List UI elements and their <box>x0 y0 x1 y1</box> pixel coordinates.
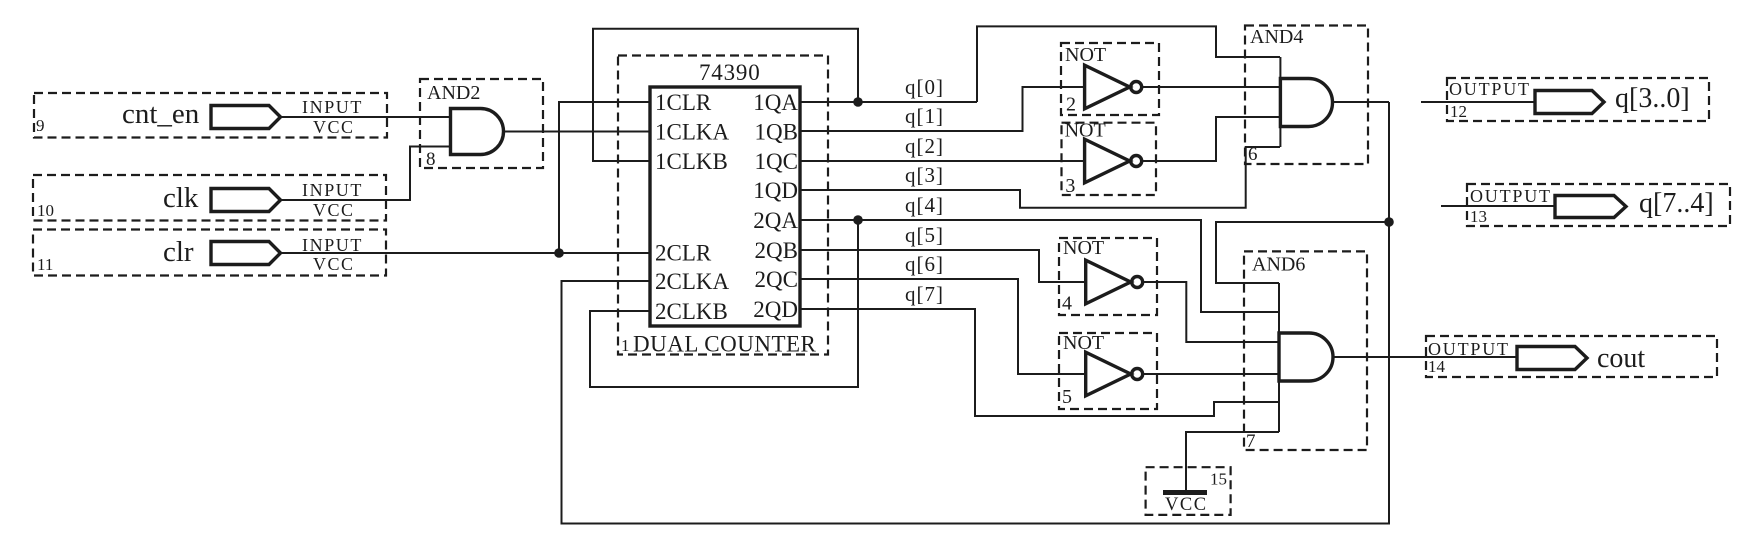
svg-text:VCC: VCC <box>1165 495 1208 515</box>
svg-text:q[0]: q[0] <box>905 75 944 99</box>
svg-text:2CLR: 2CLR <box>655 241 712 266</box>
wire q4 net <box>800 220 1279 312</box>
output pin 12 q[3..0] <box>1421 78 1709 121</box>
svg-text:q[6]: q[6] <box>905 252 944 276</box>
wire cnt_en to AND2 input A <box>281 116 451 118</box>
output pin 14 cout <box>1426 336 1717 377</box>
wire clk to AND2 input B <box>281 147 451 201</box>
svg-text:7: 7 <box>1246 431 1256 452</box>
svg-text:q[7]: q[7] <box>905 282 944 306</box>
wire q4 feedback to 2CLKB <box>590 220 858 387</box>
svg-text:OUTPUT: OUTPUT <box>1449 79 1531 99</box>
svg-text:cnt_en: cnt_en <box>122 98 200 130</box>
svg-text:5: 5 <box>1062 386 1072 408</box>
svg-text:AND4: AND4 <box>1250 26 1303 48</box>
svg-text:DUAL COUNTER: DUAL COUNTER <box>633 332 817 357</box>
wire q1 net <box>800 87 1085 131</box>
wire clr to 2CLR <box>281 252 650 254</box>
svg-text:q[3..0]: q[3..0] <box>1615 83 1690 114</box>
wire 2CLKA from bottom loop <box>562 102 1390 524</box>
counter pin labels left <box>655 90 730 324</box>
junction AND4 output branch <box>1384 217 1394 227</box>
svg-text:OUTPUT: OUTPUT <box>1428 339 1510 359</box>
svg-text:15: 15 <box>1210 469 1227 488</box>
svg-text:10: 10 <box>37 201 54 220</box>
counter 74390 body <box>650 87 800 326</box>
svg-text:INPUT: INPUT <box>302 180 363 200</box>
and-gate AND4 (6) <box>1245 26 1368 166</box>
svg-text:cout: cout <box>1597 343 1645 374</box>
vcc symbol 15 <box>1146 467 1231 515</box>
wire q6 net to NOT5 <box>800 279 1086 374</box>
svg-text:11: 11 <box>37 255 53 274</box>
wire q5 net to NOT4 <box>800 250 1086 282</box>
svg-text:q[4]: q[4] <box>905 193 944 217</box>
wire q7 net to AND6 input5 <box>800 309 1279 416</box>
svg-text:1QC: 1QC <box>755 149 798 174</box>
wire AND2 output to 1CLKA <box>504 131 651 133</box>
junction on 1QA wire <box>853 97 863 107</box>
wire q0 net <box>800 101 977 103</box>
svg-text:1CLR: 1CLR <box>655 90 712 115</box>
svg-text:2CLKB: 2CLKB <box>655 299 728 324</box>
wire VCC to AND6 input6 <box>1186 432 1279 490</box>
counter pin labels right <box>753 90 798 322</box>
svg-text:VCC: VCC <box>313 254 355 274</box>
svg-text:INPUT: INPUT <box>302 97 363 117</box>
wire NOT2 output to AND4 input2 <box>1142 86 1280 88</box>
and-gate AND6 (7) <box>1244 251 1367 452</box>
junction on q4 wire <box>853 215 863 225</box>
svg-text:3: 3 <box>1065 175 1075 197</box>
svg-text:q[3]: q[3] <box>905 163 944 187</box>
svg-text:1QB: 1QB <box>755 120 798 145</box>
svg-text:1QD: 1QD <box>753 178 798 203</box>
svg-text:AND2: AND2 <box>427 82 480 104</box>
svg-text:q[7..4]: q[7..4] <box>1639 188 1714 219</box>
svg-text:8: 8 <box>426 149 436 170</box>
svg-text:NOT: NOT <box>1063 332 1104 354</box>
svg-text:VCC: VCC <box>313 117 355 137</box>
svg-text:4: 4 <box>1062 293 1072 315</box>
svg-text:12: 12 <box>1450 102 1467 121</box>
not-gate NOT 4 <box>1059 237 1157 315</box>
svg-text:14: 14 <box>1428 357 1446 376</box>
svg-text:1CLKB: 1CLKB <box>655 149 728 174</box>
svg-text:6: 6 <box>1248 144 1258 165</box>
svg-text:q[2]: q[2] <box>905 134 944 158</box>
wire clr riser to 1CLR <box>559 102 650 253</box>
svg-text:2QD: 2QD <box>753 297 798 322</box>
svg-text:q[1]: q[1] <box>905 104 944 128</box>
wire NOT3 output to AND4 input3 <box>1142 117 1280 161</box>
wire q0 riser to AND4 input1 <box>977 26 1280 102</box>
svg-text:OUTPUT: OUTPUT <box>1470 186 1552 206</box>
wire 1QA feedback loop to 1CLKB <box>593 29 858 161</box>
svg-text:2QC: 2QC <box>755 267 798 292</box>
wire AND4 output to AND6 input1 <box>1216 222 1389 283</box>
svg-text:13: 13 <box>1470 207 1487 226</box>
not-gate NOT 5 <box>1059 332 1157 409</box>
not-gate NOT 3 <box>1062 120 1157 197</box>
svg-text:clk: clk <box>163 182 199 214</box>
svg-text:clr: clr <box>163 236 194 268</box>
wire AND6 output to output pin 14 <box>1333 356 1518 358</box>
wire q2 net to NOT3 <box>800 160 1085 162</box>
svg-text:2QA: 2QA <box>753 208 798 233</box>
junction on clr wire <box>554 248 564 258</box>
svg-text:9: 9 <box>36 116 45 135</box>
wire q3 net to AND4 input4 <box>800 147 1280 208</box>
svg-text:74390: 74390 <box>699 60 761 85</box>
svg-text:1QA: 1QA <box>753 90 798 115</box>
svg-text:NOT: NOT <box>1063 237 1104 259</box>
svg-text:1: 1 <box>621 336 630 355</box>
input pin 10 clk <box>33 175 386 221</box>
svg-text:NOT: NOT <box>1065 44 1106 66</box>
output pin 13 q[7..4] <box>1441 184 1730 226</box>
svg-text:2QB: 2QB <box>755 238 798 263</box>
counter 74390 (1) dashed box <box>618 56 828 355</box>
wire NOT5 output to AND6 input4 <box>1143 373 1279 375</box>
svg-text:2: 2 <box>1066 94 1076 116</box>
and-gate AND2 (8) <box>420 79 543 170</box>
input pin 11 clr <box>33 230 386 276</box>
input pin 9 cnt_en <box>34 93 387 138</box>
svg-text:VCC: VCC <box>313 200 355 220</box>
svg-text:2CLKA: 2CLKA <box>655 269 730 294</box>
svg-text:q[5]: q[5] <box>905 223 944 247</box>
wire NOT4 output to AND6 input3 <box>1143 282 1279 342</box>
not-gate NOT 2 <box>1061 43 1159 116</box>
wire AND4 output <box>1332 101 1389 103</box>
svg-text:1CLKA: 1CLKA <box>655 120 730 145</box>
svg-text:AND6: AND6 <box>1252 254 1305 276</box>
